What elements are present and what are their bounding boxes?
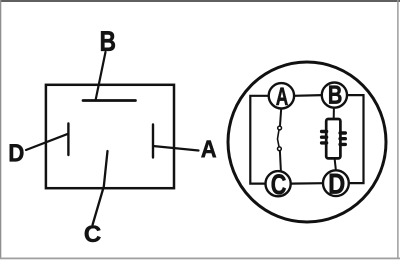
coil body (326, 119, 340, 158)
label A (201, 141, 216, 158)
wire pin B to coil (333, 108, 335, 119)
lead line from contact bar to A (153, 146, 199, 151)
border frame right (397, 0, 398, 258)
switch blade (278, 130, 280, 146)
wire coil to pin D (335, 158, 336, 170)
terminal A contact bar (152, 125, 154, 158)
label D (10, 144, 24, 161)
relay case outline (46, 85, 174, 188)
label C (85, 225, 101, 241)
lead line from D to contact bar (26, 134, 68, 150)
pin D circle (323, 170, 349, 196)
switch upper contact dot (278, 126, 282, 130)
wire left vertical A-C loop (250, 96, 268, 184)
pin B letter (329, 86, 341, 104)
border frame bottom (0, 258, 400, 260)
coil left windings (322, 132, 327, 143)
pin C circle (266, 171, 291, 196)
border frame top (0, 0, 400, 2)
pin A circle (269, 83, 294, 108)
relay base outer circle (228, 62, 386, 222)
wire pin A to switch (280, 108, 281, 125)
lead line from B to contact bar (96, 52, 106, 101)
pin C letter (272, 174, 286, 194)
label B (101, 31, 115, 50)
switch lower contact dot (278, 147, 282, 151)
pin D letter (330, 174, 344, 194)
wire right vertical B-D loop (347, 95, 364, 183)
wire switch to pin C (280, 151, 281, 171)
border frame left (0, 0, 1, 259)
pin B circle (322, 83, 347, 108)
coil right windings (340, 133, 345, 144)
wire top A to B (294, 94, 322, 97)
pin A letter (276, 88, 288, 105)
lead line from C into case (93, 151, 108, 225)
wire bottom C to D (291, 182, 324, 185)
terminal D contact bar (67, 124, 69, 156)
terminal B contact bar (83, 99, 136, 102)
